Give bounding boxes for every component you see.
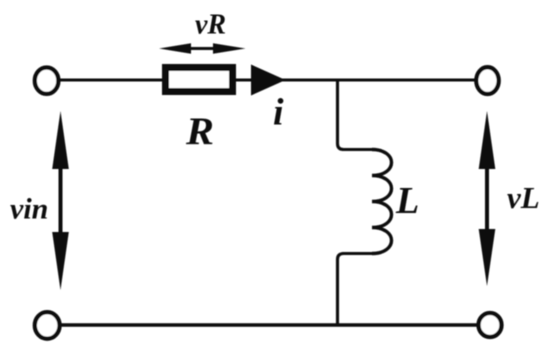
vin arrow (double-headed vertical) [52, 111, 69, 290]
inductor L coil [372, 150, 392, 254]
terminal top-left [35, 68, 59, 94]
vL arrow (double-headed vertical) [479, 111, 496, 286]
svg-text:vin: vin [10, 192, 48, 225]
resistor R [166, 68, 233, 92]
wire vertical bottom of branch [338, 254, 344, 327]
wire top horizontal [59, 79, 476, 82]
terminal bottom-left [35, 312, 60, 339]
vR arrow (double-headed) [159, 43, 246, 54]
terminal top-right [476, 67, 498, 94]
wire stub top [342, 148, 372, 151]
svg-text:L: L [395, 180, 419, 222]
wire bottom horizontal [60, 323, 478, 326]
svg-text:R: R [185, 110, 214, 153]
terminal bottom-right [479, 313, 502, 337]
svg-text:i: i [273, 92, 284, 134]
current arrow i [251, 65, 286, 96]
node junction branch (vertical wire top) [338, 79, 344, 150]
svg-text:vL: vL [507, 180, 540, 215]
svg-text:vR: vR [195, 10, 226, 41]
wire stub bottom [342, 252, 372, 255]
